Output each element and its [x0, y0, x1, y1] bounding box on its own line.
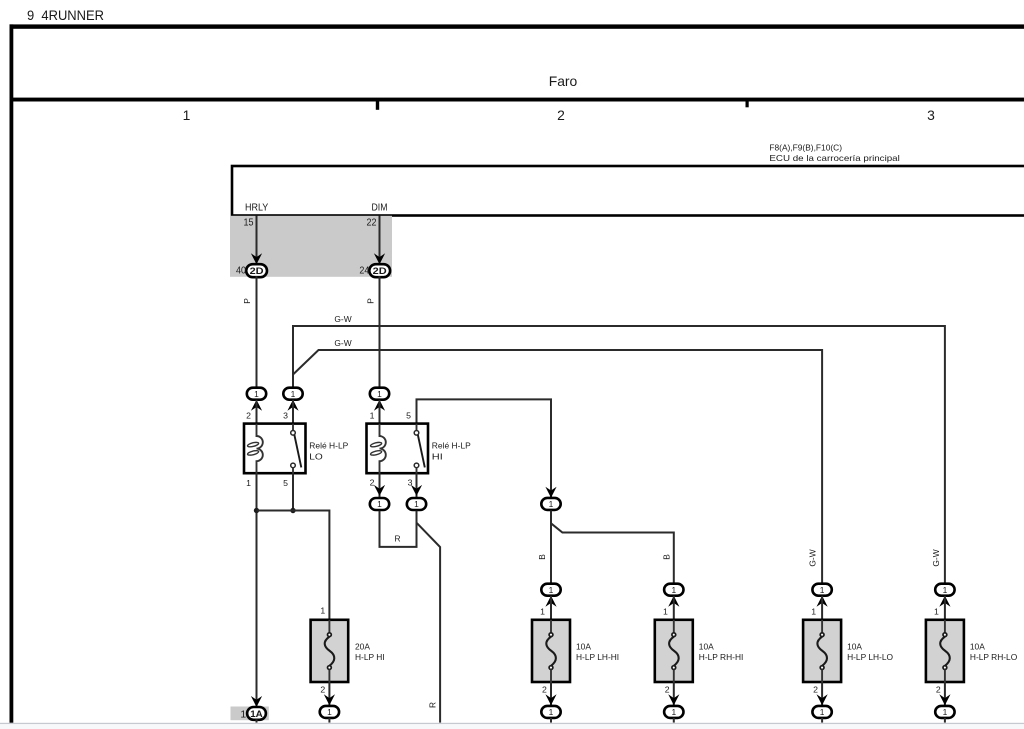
relay H-LP LO box — [244, 424, 306, 474]
svg-text:1: 1 — [254, 389, 259, 399]
svg-text:1: 1 — [811, 607, 816, 617]
wire into relay LO pin 2 — [256, 400, 258, 424]
wire R down off page — [417, 523, 441, 723]
svg-text:2D: 2D — [250, 266, 264, 276]
fuse 20A lower pin wire — [328, 682, 330, 705]
svg-text:1: 1 — [377, 389, 382, 399]
wire into relay HI pin 1 — [379, 400, 381, 424]
svg-text:H-LP RH-LO: H-LP RH-LO — [970, 652, 1018, 662]
terminal over fuse H-LP LH-LO — [812, 584, 831, 596]
svg-text:R: R — [428, 702, 438, 708]
wire G-W upper run to H-LP RH-LO fuse — [293, 326, 945, 584]
terminal over fuse H-LP RH-LO — [935, 584, 954, 596]
junction dot pin5 — [290, 508, 295, 513]
wire R link between pin2 and pin3 terminals — [380, 511, 417, 547]
svg-text:1: 1 — [183, 107, 191, 123]
svg-text:R: R — [394, 533, 400, 543]
svg-text:G-W: G-W — [808, 549, 818, 566]
fuse RH-HI lower pin wire — [673, 682, 675, 705]
fuse 20A H-LP HI box — [311, 620, 349, 682]
svg-text:P: P — [242, 298, 252, 304]
svg-text:H-LP LH-LO: H-LP LH-LO — [847, 652, 893, 662]
wire B branch to H-LP RH-HI fuse — [551, 523, 674, 584]
wire P from 2D 24 down to relay HI connector — [379, 276, 381, 388]
relay HI pin 2 wire — [379, 473, 381, 498]
wire into relay LO pin 3 — [292, 400, 294, 424]
svg-text:20A: 20A — [355, 641, 370, 651]
junction dot pin1 — [254, 508, 259, 513]
relay H-LP HI box — [367, 424, 429, 474]
fuse 10A H-LP RH-HI box — [655, 620, 693, 682]
connector terminal 1 above relay HI pin 1 — [370, 388, 389, 400]
svg-text:1: 1 — [943, 707, 948, 717]
fuse LH-HI lower pin wire — [550, 682, 552, 705]
wire G-W lower run to H-LP LH-LO fuse — [293, 350, 822, 584]
wire B down to H-LP LH-HI fuse — [550, 510, 552, 583]
svg-text:2: 2 — [320, 684, 325, 694]
svg-text:HI: HI — [432, 451, 443, 461]
wire stub below 1A — [256, 719, 258, 722]
fuse LH-LO lower terminal — [812, 706, 831, 718]
connector terminal 1 above relay LO pin 3 — [283, 388, 302, 400]
svg-text:2: 2 — [665, 684, 670, 694]
svg-text:1: 1 — [671, 707, 676, 717]
svg-text:Relé H-LP: Relé H-LP — [432, 440, 471, 450]
svg-text:1: 1 — [663, 607, 668, 617]
relay HI coil — [370, 424, 386, 474]
svg-text:5: 5 — [283, 478, 288, 488]
svg-text:G-W: G-W — [931, 549, 941, 566]
svg-text:2: 2 — [936, 684, 941, 694]
svg-text:15: 15 — [244, 218, 254, 229]
svg-text:1: 1 — [240, 709, 246, 720]
svg-text:B: B — [537, 554, 547, 560]
wire relay HI pin 5 to connector over H-LP LH-HI — [417, 399, 552, 497]
svg-text:H-LP HI: H-LP HI — [355, 652, 385, 662]
terminal over fuse H-LP RH-HI — [664, 584, 683, 596]
connector 1A gray highlight — [231, 707, 269, 721]
svg-text:DIM: DIM — [372, 203, 388, 214]
relay HI pin 3 terminal — [407, 498, 426, 510]
fuse LH-LO lower pin wire — [821, 682, 823, 705]
connector 2D terminal 40 — [246, 264, 267, 277]
svg-text:1: 1 — [246, 478, 251, 488]
svg-text:H-LP LH-HI: H-LP LH-HI — [576, 652, 619, 662]
svg-text:1: 1 — [377, 499, 382, 509]
svg-text:1: 1 — [820, 707, 825, 717]
svg-text:10A: 10A — [970, 641, 985, 651]
fuse 20A lower terminal — [320, 706, 339, 718]
svg-text:2: 2 — [813, 684, 818, 694]
svg-text:2: 2 — [557, 107, 565, 123]
svg-text:G-W: G-W — [334, 314, 351, 324]
svg-text:Relé H-LP: Relé H-LP — [309, 440, 348, 450]
svg-text:5: 5 — [406, 411, 411, 421]
svg-text:H-LP RH-HI: H-LP RH-HI — [699, 652, 744, 662]
svg-text:1A: 1A — [250, 709, 263, 719]
relay LO coil — [247, 424, 263, 474]
connector terminal 1 above relay LO pin 2 — [247, 388, 266, 400]
column tick A — [376, 102, 379, 110]
fuse RH-HI lower terminal — [664, 706, 683, 718]
svg-text:1: 1 — [943, 585, 948, 595]
svg-text:2: 2 — [370, 477, 375, 487]
relay HI switch — [414, 424, 425, 474]
svg-text:ECU de la carrocería principal: ECU de la carrocería principal — [769, 153, 900, 163]
svg-text:1: 1 — [327, 707, 332, 717]
header band divider — [10, 98, 1024, 102]
frame top border — [10, 24, 1024, 28]
fuse LH-HI lower terminal — [541, 706, 560, 718]
svg-text:1: 1 — [414, 499, 419, 509]
relay HI pin 3 wire — [416, 473, 418, 498]
svg-text:P: P — [366, 298, 376, 304]
fuse RH-LO lower terminal — [935, 706, 954, 718]
svg-text:24: 24 — [359, 266, 369, 277]
svg-text:1: 1 — [549, 499, 554, 509]
svg-text:10A: 10A — [699, 641, 714, 651]
svg-text:1: 1 — [540, 607, 545, 617]
connector terminal 1A — [247, 707, 266, 720]
svg-text:1: 1 — [820, 585, 825, 595]
fuse RH-LO lower pin wire — [944, 682, 946, 705]
svg-text:2D: 2D — [373, 266, 387, 276]
svg-text:1: 1 — [549, 707, 554, 717]
svg-text:22: 22 — [367, 218, 377, 229]
svg-text:1: 1 — [320, 606, 325, 616]
wire P from 2D 40 down to relay LO connector — [256, 276, 258, 388]
relay LO pin 1 wire down to connector 1A — [256, 473, 258, 707]
relay LO pin 5 wire — [292, 473, 294, 510]
page bottom edge — [0, 723, 1024, 724]
connector 2D gray band — [230, 216, 392, 277]
frame left border — [10, 24, 14, 722]
relay HI pin 2 terminal — [370, 498, 389, 510]
column tick B — [746, 102, 749, 108]
svg-text:3: 3 — [927, 107, 935, 123]
ECU de la carroceria principal box — [232, 166, 1024, 216]
svg-text:HRLY: HRLY — [245, 203, 268, 214]
connector 2D terminal 24 — [369, 264, 390, 277]
svg-text:9 4RUNNER: 9 4RUNNER — [27, 7, 104, 23]
fuse 10A H-LP LH-HI box — [532, 620, 570, 682]
svg-text:1: 1 — [671, 585, 676, 595]
svg-text:10A: 10A — [576, 641, 591, 651]
terminal over fuse H-LP LH-HI — [541, 584, 560, 596]
svg-text:Faro: Faro — [549, 73, 578, 89]
svg-text:40: 40 — [236, 266, 246, 277]
terminal over B wire — [545, 487, 556, 498]
relay LO switch — [291, 424, 302, 474]
wire DIM pin 22 to connector 2D — [379, 216, 381, 265]
svg-text:10A: 10A — [847, 641, 862, 651]
svg-text:2: 2 — [246, 411, 251, 421]
svg-text:1: 1 — [549, 585, 554, 595]
svg-text:G-W: G-W — [334, 338, 351, 348]
svg-text:LO: LO — [309, 451, 323, 461]
svg-text:1: 1 — [934, 607, 939, 617]
svg-text:2: 2 — [542, 684, 547, 694]
svg-text:1: 1 — [370, 411, 375, 421]
connector 1A arrow — [251, 696, 262, 707]
svg-text:1: 1 — [291, 389, 296, 399]
wire junction to 20A fuse — [257, 511, 330, 620]
fuse 10A H-LP LH-LO box — [803, 620, 841, 682]
svg-text:3: 3 — [283, 411, 288, 421]
fuse 10A H-LP RH-LO box — [926, 620, 964, 682]
wire HRLY pin 15 to connector 2D — [256, 216, 258, 265]
svg-text:F8(A),F9(B),F10(C): F8(A),F9(B),F10(C) — [769, 143, 842, 153]
svg-text:B: B — [662, 554, 672, 560]
